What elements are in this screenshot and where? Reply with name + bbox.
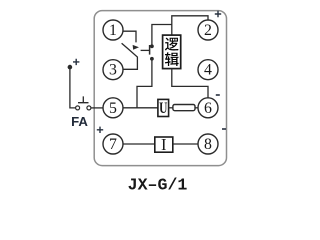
logic label 辑	[165, 52, 179, 66]
switch FA fixed contact left	[76, 106, 80, 110]
svg-text:2: 2	[204, 22, 212, 39]
svg-text:6: 6	[204, 100, 212, 117]
switch FA fixed contact right	[87, 106, 91, 110]
terminal 6	[198, 98, 218, 118]
contact node upper	[150, 44, 154, 48]
wire logic output to terminal 6	[172, 69, 208, 98]
wire resistor to terminal 6	[195, 107, 198, 109]
logic label 逻	[165, 38, 179, 51]
wire switch FA to terminal 5	[91, 107, 103, 109]
polarized contact pole bar	[149, 45, 151, 55]
terminal 2	[198, 20, 218, 40]
wire terminal1 to fixed contact	[123, 31, 136, 42]
relay contact blade K	[122, 43, 138, 69]
svg-text:I: I	[161, 135, 167, 154]
switch FA bridge and stem	[78, 96, 89, 102]
svg-text:U: U	[159, 99, 167, 116]
contact arrow	[133, 45, 139, 50]
polarized contact pole feed	[141, 49, 150, 51]
terminal 5	[103, 98, 123, 118]
terminal 8	[198, 134, 218, 154]
svg-text:1: 1	[109, 22, 117, 39]
wire upper contact to logic input	[152, 25, 172, 47]
plus marker terminal 7	[97, 127, 103, 133]
svg-text:FA: FA	[71, 114, 88, 129]
wire terminal7 to current module	[123, 143, 155, 145]
wire supply to switch FA	[70, 67, 76, 108]
wire logic top node to terminal 2	[172, 16, 208, 35]
minus marker terminal 8	[222, 128, 226, 130]
svg-text:3: 3	[109, 62, 117, 79]
svg-text:JX–G/1: JX–G/1	[128, 175, 188, 194]
rectifier module U	[158, 99, 169, 116]
svg-text:8: 8	[204, 136, 212, 153]
contact node lower	[150, 57, 154, 61]
plus marker terminal 2	[215, 11, 221, 17]
resistor R	[173, 105, 195, 111]
wire current module to terminal 8	[173, 143, 198, 145]
svg-text:7: 7	[109, 136, 117, 153]
enclosure outline (relay case)	[94, 11, 226, 166]
terminal 7	[103, 134, 123, 154]
logic module box U1	[163, 35, 181, 69]
terminal 3	[103, 60, 123, 80]
svg-text:5: 5	[109, 100, 117, 117]
svg-text:4: 4	[204, 62, 212, 79]
terminal 4	[198, 60, 218, 80]
external supply node dot	[68, 65, 73, 70]
wire lower contact to node on row5	[137, 59, 152, 108]
wire rectifier to resistor	[169, 107, 173, 109]
terminal 1	[103, 20, 123, 40]
wire terminal5 to rectifier	[123, 107, 158, 109]
minus marker terminal 6	[216, 94, 220, 96]
plus marker at supply	[73, 59, 79, 65]
current module I	[155, 137, 173, 152]
